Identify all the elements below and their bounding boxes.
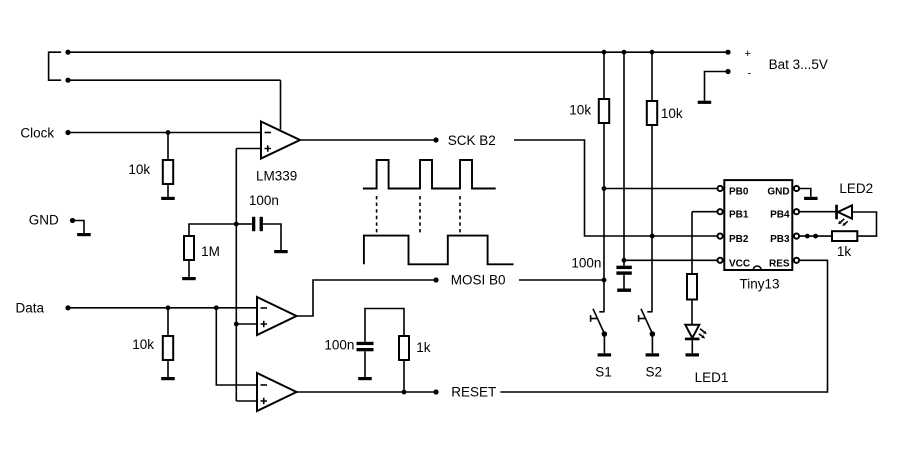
wire: battery minus to ground bbox=[705, 72, 729, 101]
waveform: sample dashed line 2 bbox=[419, 196, 421, 233]
node: MOSI terminal bbox=[433, 277, 438, 282]
wire: PB0 line bbox=[604, 188, 718, 190]
wire: PB1 to LED resistor bbox=[692, 212, 718, 274]
node: Data terminal bbox=[65, 305, 70, 310]
wire: Clock line bbox=[68, 132, 261, 134]
pin PB0 bbox=[718, 186, 723, 191]
svg-text:Tiny13: Tiny13 bbox=[740, 277, 780, 292]
pin VCC bbox=[718, 258, 723, 263]
wire: comp1 output to SCK bbox=[300, 139, 436, 141]
LED2 emission arrows bbox=[841, 219, 845, 222]
svg-text:10k: 10k bbox=[661, 106, 683, 121]
svg-text:100n: 100n bbox=[249, 193, 279, 208]
wire: reference to comp2 plus bbox=[236, 323, 257, 325]
ground: IC GND bbox=[804, 197, 818, 200]
pin RES bbox=[794, 258, 799, 263]
capacitor 100n (VCC decoupling) bbox=[616, 266, 631, 269]
wire: GND terminal lead bbox=[73, 221, 85, 234]
svg-text:S1: S1 bbox=[595, 365, 612, 380]
op-amp U1A LM339 (clock comparator) bbox=[261, 122, 300, 159]
ground: reference cap bbox=[274, 250, 288, 253]
switch S2 bbox=[647, 311, 652, 313]
svg-text:GND: GND bbox=[29, 213, 59, 228]
node: reference / comp2 plus bbox=[234, 322, 239, 327]
svg-text:LED1: LED1 bbox=[695, 370, 729, 385]
wire: IC GND pin to ground bbox=[799, 189, 811, 197]
node: SCK / 10k pullup junction bbox=[650, 234, 655, 239]
wire: PB4 to LED2 bbox=[799, 211, 835, 213]
pin PB3 bbox=[794, 234, 799, 239]
resistor (LED1 series) bbox=[687, 274, 697, 300]
capacitor 100n (reset RC) bbox=[357, 342, 374, 345]
ground: S1 bbox=[598, 353, 612, 356]
svg-text:PB4: PB4 bbox=[770, 210, 790, 221]
wire: reference bus bbox=[235, 149, 237, 402]
LED LED2 bbox=[835, 205, 838, 220]
capacitor 100n (reference) bbox=[236, 223, 252, 225]
waveform: data bits bbox=[364, 236, 514, 265]
svg-text:PB0: PB0 bbox=[729, 187, 749, 198]
svg-text:SCK B2: SCK B2 bbox=[448, 133, 496, 148]
wire: reference to comp1 plus bbox=[236, 148, 261, 150]
resistor 1M bbox=[189, 224, 236, 236]
op-amp U1C LM339 (reset comparator) bbox=[257, 373, 297, 411]
resistor 1k (LED2) bbox=[832, 231, 857, 241]
node: battery plus terminal bbox=[725, 50, 730, 55]
ground: battery minus bbox=[698, 101, 712, 104]
wire: SCK to PB2 bbox=[514, 140, 718, 236]
wire: PB3 to 1k bbox=[799, 235, 832, 237]
svg-text:Data: Data bbox=[16, 301, 45, 316]
node: Clock terminal bbox=[65, 130, 70, 135]
wire: left bracket joining rails bbox=[49, 52, 62, 80]
svg-text:VCC: VCC bbox=[729, 258, 750, 269]
svg-text:PB2: PB2 bbox=[729, 234, 749, 245]
svg-text:1M: 1M bbox=[201, 244, 220, 259]
pin PB4 bbox=[794, 209, 799, 214]
ground: S2 bbox=[646, 353, 660, 356]
waveform: sample dashed line 1 bbox=[376, 196, 378, 233]
resistor 1k (reset RC) bbox=[403, 360, 405, 392]
node: battery minus terminal bbox=[725, 69, 730, 74]
resistor 10k (SCK pullup) bbox=[651, 52, 653, 101]
svg-text:PB1: PB1 bbox=[729, 210, 749, 221]
svg-text:1k: 1k bbox=[416, 340, 431, 355]
svg-text:100n: 100n bbox=[571, 256, 601, 271]
svg-text:1k: 1k bbox=[837, 244, 852, 259]
wire: Data to comparator3 minus bbox=[216, 308, 257, 385]
wire: RESET to RES pin bbox=[500, 260, 827, 392]
ground: GND terminal bbox=[77, 233, 91, 236]
node: RESET terminal bbox=[433, 389, 438, 394]
pin GND bbox=[794, 186, 799, 191]
svg-text:RESET: RESET bbox=[451, 385, 496, 400]
svg-text:Clock: Clock bbox=[20, 125, 54, 140]
svg-text:+: + bbox=[745, 48, 751, 60]
wire: reference to comp3 plus bbox=[236, 400, 257, 402]
IC U2 Tiny13 body bbox=[724, 180, 792, 270]
svg-text:-: - bbox=[748, 68, 752, 80]
waveform: sample dashed line 3 bbox=[459, 196, 461, 233]
svg-text:10k: 10k bbox=[132, 337, 154, 352]
svg-text:GND: GND bbox=[767, 187, 789, 198]
node: Data / comp3 branch bbox=[214, 305, 219, 310]
ground: LED1 bbox=[686, 353, 700, 356]
wire: battery plus rail bbox=[67, 51, 728, 53]
wire: supply rail 2 bbox=[67, 79, 281, 81]
node: rail2 junction bbox=[65, 78, 70, 83]
svg-text:LM339: LM339 bbox=[256, 169, 297, 184]
ground: 1M bbox=[182, 277, 196, 280]
resistor 10k (Clock pulldown) bbox=[167, 133, 169, 161]
wire: MOSI to PB0 net bbox=[519, 279, 604, 281]
svg-text:RES: RES bbox=[769, 258, 790, 269]
svg-text:10k: 10k bbox=[128, 162, 150, 177]
wire: comp2 output to MOSI bbox=[297, 280, 437, 316]
resistor 10k (MOSI pullup) bbox=[603, 52, 605, 99]
wire: VCC to pin bbox=[624, 259, 718, 261]
node: rail1 junction bbox=[65, 50, 70, 55]
ground: data resistor bbox=[161, 377, 175, 380]
switch S1 bbox=[599, 311, 604, 313]
node: PB3 dot b bbox=[813, 234, 818, 239]
node: rail / VCC line bbox=[622, 50, 627, 55]
node: VCC junction bbox=[622, 258, 627, 263]
svg-text:MOSI B0: MOSI B0 bbox=[451, 273, 506, 288]
waveform: clock pulses bbox=[363, 160, 496, 189]
op-amp U1B LM339 (data comparator) bbox=[257, 297, 297, 335]
node: GND terminal bbox=[70, 218, 75, 223]
node: reference / RC node bbox=[234, 222, 239, 227]
wire: VCC feed bbox=[623, 52, 625, 266]
svg-text:S2: S2 bbox=[646, 365, 663, 380]
node: Clock / R-divider junction bbox=[166, 130, 171, 135]
node: SCK terminal bbox=[433, 137, 438, 142]
wire: supply drop into LM339 bbox=[280, 80, 282, 129]
resistor 10k (Data pulldown) bbox=[167, 308, 169, 336]
node: pullup1 / PB0 wire bbox=[602, 186, 607, 191]
node: PB3 dot a bbox=[805, 234, 810, 239]
wire: comp3 output to RESET bbox=[297, 391, 437, 393]
svg-text:LED2: LED2 bbox=[839, 181, 873, 196]
node: RC junction on reset line bbox=[402, 390, 407, 395]
ground: reset RC cap bbox=[358, 377, 372, 380]
LED1 emission arrows bbox=[700, 329, 704, 332]
ground: clock resistor bbox=[161, 197, 175, 200]
node: Data / R junction bbox=[166, 305, 171, 310]
node: MOSI / pullup junction bbox=[602, 278, 607, 283]
LED LED1 bbox=[685, 325, 699, 338]
svg-text:100n: 100n bbox=[324, 338, 354, 353]
node: rail / pullup2 bbox=[650, 50, 655, 55]
svg-text:10k: 10k bbox=[569, 103, 591, 118]
svg-text:PB3: PB3 bbox=[770, 234, 790, 245]
svg-text:Bat 3...5V: Bat 3...5V bbox=[769, 57, 828, 72]
IC notch bbox=[753, 266, 761, 270]
wire: Data line bbox=[68, 307, 257, 309]
pin PB1 bbox=[718, 209, 723, 214]
ground: decoupling cap bbox=[617, 289, 631, 292]
node: rail / pullup1 bbox=[602, 50, 607, 55]
pin PB2 bbox=[718, 234, 723, 239]
